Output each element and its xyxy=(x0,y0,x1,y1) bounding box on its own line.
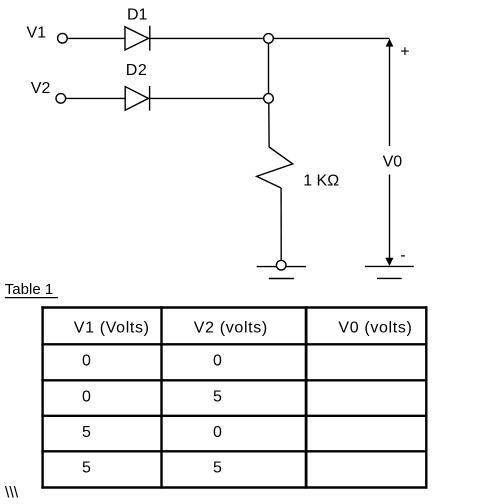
terminal V1 xyxy=(58,33,68,43)
svg-text:5: 5 xyxy=(82,424,91,441)
ground left bar 1 xyxy=(257,266,306,268)
output arrow line lower segment xyxy=(389,175,391,259)
svg-text:Table 1: Table 1 xyxy=(5,281,53,298)
table header bottom border xyxy=(41,343,427,345)
ground left node circle xyxy=(276,260,286,270)
table outer bottom border xyxy=(41,486,427,488)
resistor R 1 KΩ zigzag xyxy=(257,147,293,188)
svg-text:V0: V0 xyxy=(383,154,403,171)
wire V2 terminal to D2 anode xyxy=(66,97,125,99)
diode D1 xyxy=(125,26,150,51)
diode D2 xyxy=(125,86,149,111)
output arrowhead down (-) xyxy=(385,258,393,266)
svg-text:V0 (volts): V0 (volts) xyxy=(338,320,412,337)
ground right bar 2 xyxy=(377,277,402,279)
node 2 junction xyxy=(264,94,274,104)
svg-text:0: 0 xyxy=(82,388,91,405)
wire node 1 to output arrow xyxy=(269,37,390,39)
table outer top border xyxy=(41,306,427,308)
svg-text:V1 (Volts): V1 (Volts) xyxy=(74,320,150,337)
svg-text:V1: V1 xyxy=(27,25,47,42)
svg-text:0: 0 xyxy=(213,353,222,370)
svg-text:-: - xyxy=(400,247,405,264)
table row border 4 xyxy=(41,450,427,452)
svg-text:0: 0 xyxy=(82,353,91,370)
wire V1 terminal to D1 anode xyxy=(67,37,125,39)
svg-text:+: + xyxy=(400,43,409,60)
svg-text:5: 5 xyxy=(213,460,222,477)
table row border 2 xyxy=(41,379,427,381)
wire node 2 to resistor top xyxy=(268,103,270,147)
svg-text:V2 (volts): V2 (volts) xyxy=(194,320,268,337)
svg-text:V2: V2 xyxy=(31,80,51,97)
table right border xyxy=(425,306,427,488)
terminal V2 xyxy=(56,94,66,104)
output arrowhead up (+) xyxy=(386,39,394,47)
wire D1 cathode to node 1 xyxy=(151,37,265,39)
Table 1 caption underline xyxy=(5,297,58,299)
wire node 1 to node 2 vertical xyxy=(268,38,270,98)
svg-text:1 KΩ: 1 KΩ xyxy=(303,173,339,190)
table column divider 1 xyxy=(160,306,162,488)
output arrow line upper segment xyxy=(389,46,391,147)
svg-text:D1: D1 xyxy=(127,7,148,24)
table left border xyxy=(41,306,43,488)
svg-text:0: 0 xyxy=(213,424,222,441)
ground right bar 1 xyxy=(365,265,414,267)
node 1 junction xyxy=(264,34,274,44)
ground left bar 2 xyxy=(269,278,294,280)
svg-text:D2: D2 xyxy=(126,62,147,79)
svg-text:5: 5 xyxy=(213,388,222,405)
svg-text:\\\: \\\ xyxy=(5,485,19,502)
wire D2 cathode to node 2 xyxy=(150,97,264,99)
table row border 3 xyxy=(41,415,427,417)
svg-text:5: 5 xyxy=(82,460,91,477)
table column divider 2 xyxy=(305,306,308,488)
wire resistor bottom to ground node xyxy=(280,188,282,260)
